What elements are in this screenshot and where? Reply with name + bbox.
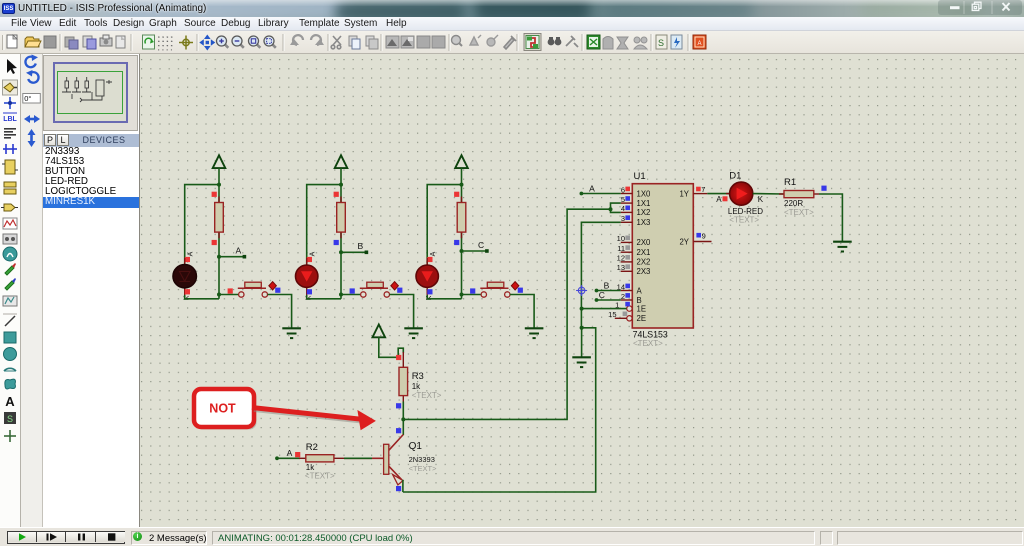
svg-text:A: A [589,183,595,193]
svg-text:2N3393: 2N3393 [409,455,435,464]
LED D1 [726,182,753,205]
svg-text:6: 6 [621,185,625,194]
U1 pin 11 2X1 [617,244,650,257]
svg-text:1X2: 1X2 [637,208,651,217]
ground stage B [404,328,423,338]
svg-text:12: 12 [617,254,625,263]
svg-text:1E: 1E [637,304,647,313]
Q1 emitter state square [396,486,401,491]
node B wire [341,251,366,253]
junction bottom A [217,293,221,297]
junction 1E [580,307,584,311]
ground stage A [282,328,301,338]
wire main vertical A [218,185,220,299]
svg-text:4: 4 [621,204,625,213]
junction top A [217,183,221,187]
resistor R2 [299,455,345,462]
wire top branch to LED C [427,185,461,266]
wire 1E [582,308,627,310]
wire emitter down [402,480,404,492]
svg-text:<TEXT>: <TEXT> [784,208,814,217]
svg-text:Q1: Q1 [409,441,423,452]
wire gnd node right and down [403,328,596,492]
R1 state square [821,186,826,191]
op U1 74LS153 body [632,184,693,328]
U1 pin 2 B [621,292,642,305]
wire to button B [341,294,361,296]
junction pins45 [609,207,613,211]
svg-text:2: 2 [621,292,625,301]
U1 pin 6 1X0 [621,185,651,198]
wire top branch to LED B [307,185,341,266]
wire LED cathode A [185,295,219,299]
svg-text:<TEXT>: <TEXT> [305,472,335,481]
button state square right A [275,288,280,293]
wire power to R3 [379,337,404,357]
wire net A to pin 6 [581,193,620,195]
D1 anode square [723,196,728,201]
resistor pullup A [218,197,220,203]
origin marker [576,285,587,296]
wire LED cathode B [307,295,341,299]
wire pins 5-4 loop [611,203,621,212]
junction bottom C [460,293,464,297]
junction gnd node [580,326,584,330]
U1 pin 9 2Y [679,232,711,247]
wire button to ground A [268,295,292,329]
svg-text:13: 13 [617,263,625,272]
wire R2 input [277,457,300,459]
svg-text:LBL: LBL [3,116,17,123]
svg-text:2X1: 2X1 [637,248,651,257]
LED-RED A [184,258,186,266]
ground stage C [525,328,544,338]
state square above R C [454,192,459,197]
transistor Q1 [344,435,403,485]
svg-text:<TEXT>: <TEXT> [633,339,663,348]
LED-RED B [306,258,308,266]
button state square left B [350,288,355,293]
svg-text:74LS153: 74LS153 [633,330,668,340]
wire to button C [462,294,482,296]
wire pins45 to collector node [403,209,610,419]
LED cathode square C [427,289,432,294]
svg-text:15: 15 [608,310,616,319]
button C [480,282,510,297]
svg-text:R3: R3 [412,371,424,382]
svg-text:<TEXT>: <TEXT> [729,215,759,224]
resistor R3 [399,352,408,402]
power arrow A [213,155,226,168]
wire R1 to ground [819,194,842,242]
wire R3 to collector node [402,402,404,420]
U1 pin 12 2X2 [617,254,651,267]
svg-text:R2: R2 [306,442,318,453]
node C wire [462,250,487,252]
svg-text:A: A [310,251,317,256]
wire R2 to base [344,457,372,459]
R3 state square top [396,355,401,360]
junction top C [460,183,464,187]
wire collector node down [402,419,404,435]
state square below R C [454,240,459,245]
svg-text:D1: D1 [729,170,741,181]
svg-text:2X3: 2X3 [637,267,651,276]
U1 pin 15 2E [608,310,646,323]
button A [238,282,268,297]
button state square right C [518,288,523,293]
wire power stem B [340,168,342,185]
svg-text:A: A [697,41,701,47]
wire pin 3 down [581,222,620,327]
wire power stem A [218,168,220,185]
state square above R A [212,192,217,197]
wire net C to pin 2 [597,299,621,301]
state square below R A [212,240,217,245]
junction collector node [401,417,405,421]
ground U1 [572,357,591,367]
NOT callout box [194,389,257,430]
ground R1 [833,242,852,252]
svg-text:<TEXT>: <TEXT> [412,391,442,400]
wire gnd stem [581,328,583,358]
svg-text:220R: 220R [784,199,803,208]
wire main vertical C [461,185,463,299]
svg-text:9: 9 [702,232,706,241]
U1 pin 14 A [617,282,643,295]
U1 pin 1 1E [615,300,646,313]
svg-text:5: 5 [621,195,625,204]
svg-text:1X0: 1X0 [637,189,652,198]
svg-text:2E: 2E [637,314,647,323]
NOT callout arrow [252,408,376,431]
U1 pin 7 1Y [679,185,707,199]
wire main vertical B [340,185,342,299]
wire button to ground C [510,295,534,329]
svg-text:3: 3 [621,214,625,223]
LED cathode square A [185,289,190,294]
LED-RED C [426,258,428,266]
svg-text:1Y: 1Y [679,189,689,198]
svg-text:B: B [604,280,610,290]
wire net B to pin 14 [597,290,621,292]
junction top B [339,183,343,187]
wire D1 to R1 [753,193,784,195]
wire 1Y to D1 [707,193,730,195]
svg-text:S: S [7,414,13,424]
LED anode square C [427,257,432,262]
svg-text:C: C [478,240,484,250]
power arrow C [455,155,468,168]
LED anode square B [307,257,312,262]
power arrow Q1 [373,325,386,338]
state square below R B [334,240,339,245]
U1 pin 13 2X3 [617,263,651,276]
resistor pullup B [340,197,342,203]
svg-text:11: 11 [617,244,625,253]
svg-text:A: A [188,251,195,256]
wire power stem C [461,168,463,185]
wire to button A [219,294,239,296]
R3 state square bottom [396,403,401,408]
junction bottom B [339,293,343,297]
svg-text:A: A [716,195,722,204]
svg-text:1X1: 1X1 [637,199,651,208]
button toggle diamond C [511,282,519,290]
button toggle diamond B [391,282,399,290]
R2 input state square [295,452,300,457]
svg-text:C: C [599,290,605,300]
button state square right B [397,288,402,293]
LED anode square A [185,257,190,262]
svg-text:S: S [658,38,664,48]
svg-text:<TEXT>: <TEXT> [409,464,438,473]
svg-text:A: A [5,394,15,409]
wire top branch to LED A [185,185,219,266]
U1 pin 5 1X1 [621,195,651,208]
state square above R B [334,192,339,197]
svg-text:K: K [758,195,764,204]
svg-text:0°: 0° [24,94,31,103]
resistor R1 [779,191,819,198]
wire LED cathode C [427,295,461,299]
svg-text:10: 10 [617,234,625,243]
svg-text:1k: 1k [412,382,421,391]
svg-text:A: A [430,251,437,256]
svg-text:2Y: 2Y [679,237,689,246]
svg-text:2X2: 2X2 [637,258,651,267]
svg-text:A: A [236,246,242,256]
Q1 collector state square [396,428,401,433]
button B [360,282,390,297]
svg-text:U1: U1 [634,171,646,182]
button state square left C [470,288,475,293]
U1 pin 10 2X0 [617,234,651,247]
wire button to ground B [390,295,414,329]
svg-text:R1: R1 [784,177,796,188]
resistor pullup C [461,197,463,203]
button state square left A [228,288,233,293]
svg-text:B: B [358,241,364,251]
U1 pin 3 1X3 [621,214,651,227]
node A wire [219,256,244,258]
U1 pin 4 1X2 [621,204,651,217]
svg-text:NOT: NOT [209,402,236,416]
svg-text:1X3: 1X3 [637,218,651,227]
power arrow B [335,155,348,168]
svg-text:2X0: 2X0 [637,238,652,247]
LED cathode square B [307,289,312,294]
button toggle diamond A [269,282,277,290]
svg-text:7: 7 [701,185,705,194]
svg-text:A: A [287,448,293,458]
svg-text:A: A [637,286,643,295]
